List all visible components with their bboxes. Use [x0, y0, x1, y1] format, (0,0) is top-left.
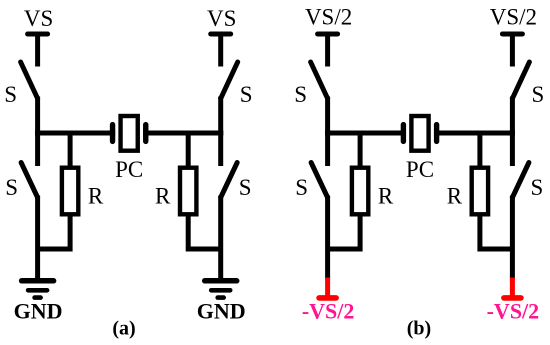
label S (upper b right)	[532, 82, 545, 107]
switch S blade (lower a left)	[21, 163, 37, 198]
svg-text:-VS/2: -VS/2	[302, 299, 355, 324]
svg-text:VS/2: VS/2	[305, 5, 352, 30]
wire: node to lower switch (a left)	[35, 131, 40, 167]
power terminal -VS/2 bar (b right)	[504, 295, 521, 301]
wire: node horizontal (a left)	[35, 131, 115, 136]
power terminal -VS/2 bar (b left)	[319, 295, 336, 301]
power terminal VS/2 (b right)	[502, 32, 522, 37]
svg-text:VS: VS	[207, 6, 236, 31]
resistor R (a left)	[62, 168, 78, 215]
switch S blade (upper a left)	[21, 62, 38, 99]
wire: resistor bottom L to rail (b right)	[480, 215, 513, 250]
net VS label (a right)	[207, 6, 236, 31]
ground GND symbol (a left)	[22, 281, 54, 298]
wire: node horizontal (b right)	[434, 131, 515, 136]
wire: VS/2 terminal stem (b left)	[325, 34, 330, 67]
svg-text:PC: PC	[115, 157, 143, 182]
wire: VS terminal stem (a left)	[35, 34, 40, 67]
net VS label (a left)	[24, 6, 53, 31]
svg-text:-VS/2: -VS/2	[487, 299, 540, 324]
resistor R (b left)	[352, 168, 368, 215]
svg-text:VS/2: VS/2	[490, 5, 537, 30]
svg-text:R: R	[378, 184, 394, 209]
label R (b left)	[378, 184, 394, 209]
svg-text:S: S	[239, 175, 252, 200]
switch S blade (lower a right)	[221, 163, 238, 198]
piezoelectric transducer PC (b)	[403, 116, 436, 151]
switch S blade (lower b left)	[311, 163, 328, 198]
wire: negative supply red segment (b left)	[325, 278, 330, 298]
label R (b right)	[447, 184, 463, 209]
wire: resistor bottom L to rail (a right)	[188, 215, 221, 250]
wire: node to resistor R stub (a right)	[186, 131, 191, 168]
label S (upper a right)	[240, 82, 253, 107]
svg-text:R: R	[447, 184, 463, 209]
resistor R (a right)	[180, 168, 196, 215]
ground GND symbol (a right)	[205, 281, 237, 298]
wire: lower switch rail (b right)	[510, 196, 515, 280]
svg-text:S: S	[295, 175, 308, 200]
resistor R (b right)	[472, 168, 488, 215]
power terminal VS/2 (b left)	[318, 32, 338, 37]
caption (b)	[407, 318, 431, 340]
wire: VS/2 terminal stem (b right)	[510, 34, 515, 67]
svg-text:PC: PC	[406, 157, 434, 182]
label S (lower b left)	[295, 175, 308, 200]
svg-text:R: R	[88, 184, 104, 209]
wire: lower switch to ground rail (a left)	[35, 196, 40, 281]
svg-text:GND: GND	[14, 299, 63, 324]
switch S blade (lower b right)	[512, 163, 529, 198]
label S (upper b left)	[294, 82, 307, 107]
label PC (b)	[406, 157, 434, 182]
wire: node to resistor R stub (a left)	[68, 131, 73, 168]
svg-text:S: S	[5, 175, 18, 200]
wire: upper switch to node (a right)	[218, 97, 223, 136]
wire: VS terminal stem (a right)	[218, 34, 223, 67]
wire: node to lower switch (b left)	[325, 131, 330, 167]
wire: upper switch to node (b right)	[510, 97, 515, 136]
wire: resistor bottom L to rail (a left)	[38, 215, 71, 250]
piezoelectric transducer PC (a)	[113, 116, 146, 151]
switch S blade (upper b right)	[512, 62, 529, 99]
label PC (a)	[115, 157, 143, 182]
wire: negative supply red segment (b right)	[510, 278, 515, 298]
label GND (a right)	[197, 299, 246, 324]
label S (lower a right)	[239, 175, 252, 200]
label GND (a left)	[14, 299, 63, 324]
label S (lower b right)	[531, 175, 544, 200]
svg-text:(a): (a)	[112, 318, 135, 340]
svg-text:S: S	[531, 175, 544, 200]
net VS/2 label (b left)	[305, 5, 352, 30]
label R (a left)	[88, 184, 104, 209]
label R (a right)	[155, 184, 171, 209]
label -VS/2 (b left)	[302, 299, 355, 324]
wire: upper switch to node (a left)	[35, 97, 40, 136]
wire: node to lower switch (a right)	[218, 131, 223, 167]
svg-text:S: S	[240, 82, 253, 107]
svg-text:R: R	[155, 184, 171, 209]
svg-text:S: S	[4, 82, 17, 107]
svg-text:S: S	[294, 82, 307, 107]
wire: node to lower switch (b right)	[510, 131, 515, 167]
power terminal VS (a left)	[28, 32, 48, 37]
caption (a)	[112, 318, 135, 340]
svg-text:(b): (b)	[407, 318, 431, 340]
wire: lower switch to ground rail (a right)	[218, 196, 223, 281]
svg-text:GND: GND	[197, 299, 246, 324]
wire: resistor bottom L to rail (b left)	[328, 215, 361, 250]
wire: node to resistor R stub (b left)	[358, 131, 363, 168]
label S (upper a left)	[4, 82, 17, 107]
svg-text:S: S	[532, 82, 545, 107]
wire: lower switch rail (b left)	[325, 196, 330, 280]
switch S blade (upper a right)	[221, 62, 238, 99]
svg-text:VS: VS	[24, 6, 53, 31]
switch S blade (upper b left)	[311, 62, 328, 99]
label S (lower a left)	[5, 175, 18, 200]
power terminal VS (a right)	[211, 32, 231, 37]
wire: node to resistor R stub (b right)	[477, 131, 482, 168]
label -VS/2 (b right)	[487, 299, 540, 324]
wire: node horizontal (b left)	[325, 131, 406, 136]
net VS/2 label (b right)	[490, 5, 537, 30]
wire: node horizontal (a right)	[143, 131, 223, 136]
wire: upper switch to node (b left)	[325, 97, 330, 136]
